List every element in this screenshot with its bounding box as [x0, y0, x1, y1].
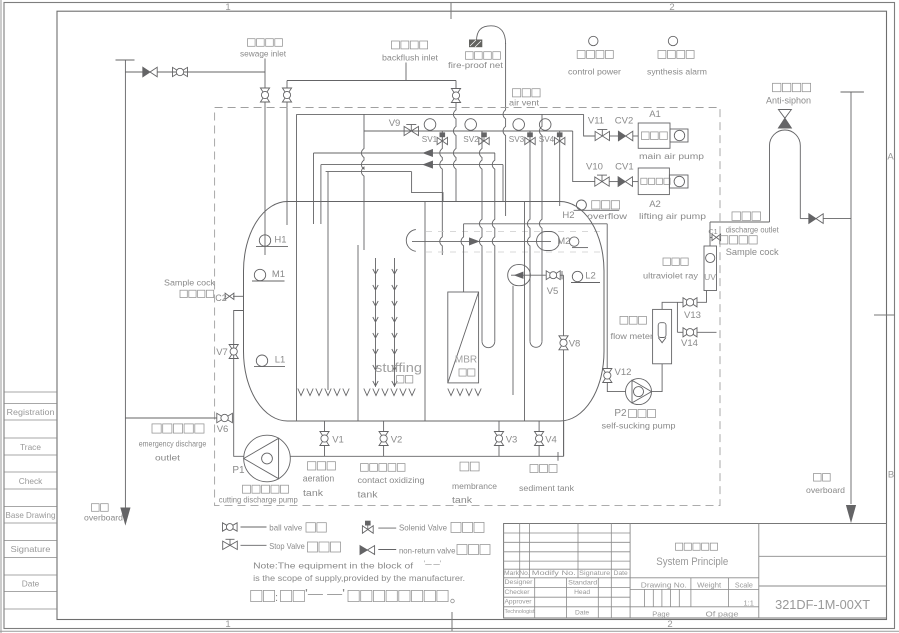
legend label ball valve cjk [306, 523, 326, 532]
valve C2 [225, 293, 234, 299]
valve V8 [559, 336, 568, 350]
label aeration tank cjk [308, 462, 336, 470]
svg-text:Page: Page [652, 610, 670, 619]
svg-text:'— —': '— —' [305, 589, 345, 601]
aeration diffusers row [298, 389, 349, 396]
wire check valve to overboard main [823, 218, 851, 220]
svg-text:L1: L1 [275, 355, 286, 366]
svg-text:main air pump: main air pump [639, 151, 704, 161]
wire header left leg [313, 153, 315, 224]
wire overboard-left vertical pipe [124, 60, 126, 508]
valve V7 [229, 345, 238, 359]
label overboard left cjk [92, 504, 109, 512]
anti-siphon vacuum breaker [778, 110, 791, 119]
wire main air bus y114 [297, 113, 584, 115]
svg-text:Head: Head [574, 589, 590, 596]
svg-text:Note:The equipment in the bloc: Note:The equipment in the block of [253, 560, 414, 570]
wire drain V4 [538, 421, 540, 431]
svg-text:V2: V2 [391, 435, 403, 446]
svg-text:V7: V7 [216, 347, 228, 358]
stuffing arrows column 1 [373, 258, 378, 387]
fire-proof net box [469, 40, 482, 48]
valve V6 [217, 413, 233, 422]
valve V13 [683, 298, 697, 307]
svg-text:V5: V5 [547, 286, 559, 297]
svg-text:non-return valve: non-return valve [399, 545, 456, 555]
MBR module box [448, 292, 479, 383]
tank divider 4 [524, 202, 526, 422]
svg-text:Trace: Trace [20, 442, 41, 452]
solenoid valve SV2 [479, 137, 489, 144]
wire CV2-A1 [633, 135, 638, 137]
wire header box top y171 [326, 171, 412, 173]
flow meter float [658, 323, 666, 338]
title block outer box [504, 524, 887, 619]
air vent gooseneck [477, 26, 506, 44]
wire CV1-A2 [633, 181, 639, 183]
svg-text:P2: P2 [614, 408, 627, 419]
valve backflush right [451, 89, 460, 103]
MBR module diagonal [448, 292, 479, 383]
V5 suction drop [512, 286, 514, 395]
zone tick bottom [451, 612, 453, 631]
svg-text:Standard: Standard [568, 580, 597, 587]
svg-text:C2: C2 [215, 293, 227, 303]
M1 underline [252, 280, 285, 282]
wire aeration feed drop [327, 172, 329, 390]
wire permeate down to V12 [606, 224, 608, 369]
legend stop valve symbol [223, 541, 238, 549]
valve V11 [595, 131, 609, 140]
L2 underline [571, 282, 600, 284]
svg-text:overboard: overboard [806, 485, 845, 495]
MBR permeate drop [461, 224, 464, 292]
label discharge outlet cjk [732, 212, 761, 221]
label sediment tank cjk [530, 465, 557, 473]
V5 suction oval [508, 265, 531, 286]
wire manifold right riser [563, 421, 565, 456]
overflow port H2 circle [576, 200, 586, 210]
port circle 3 on air bus [513, 119, 525, 131]
non-return valve overboard [809, 214, 816, 224]
svg-text:outlet: outlet [155, 453, 181, 463]
svg-text:Scale: Scale [735, 581, 753, 590]
valve V4 [535, 432, 544, 446]
svg-text:Modify No.: Modify No. [532, 570, 576, 577]
svg-text:V14: V14 [681, 338, 698, 349]
liquid level dashed line 1 [426, 230, 601, 232]
non-return valve top-left [143, 67, 150, 77]
svg-text:stuffing: stuffing [375, 361, 422, 375]
tank divider 1 [296, 114, 298, 421]
level sensor M1 circle [254, 269, 265, 280]
tank shell outline [244, 202, 605, 422]
wire SV1 drop [440, 131, 443, 255]
wire bus corner to V10 [573, 131, 595, 182]
membrane diffusers row [448, 389, 481, 396]
level sensor L1 circle [256, 355, 267, 366]
label contact oxidizing cjk [361, 464, 406, 472]
svg-text:2: 2 [667, 619, 672, 630]
wire emergency discharge line [125, 417, 216, 419]
wire header left leg 2 [320, 165, 322, 224]
svg-text:M1: M1 [272, 269, 285, 280]
svg-text:sewage inlet: sewage inlet [240, 49, 287, 59]
level sensor H1 circle [259, 235, 270, 246]
solenoid valve SV1 [437, 137, 447, 144]
label ultraviolet ray cjk [663, 258, 688, 265]
svg-text:Base Drawing: Base Drawing [6, 510, 56, 520]
sample cock C2 stub [233, 295, 244, 297]
svg-text:cutting discharge pump: cutting discharge pump [219, 494, 298, 504]
UV lamp circle [706, 253, 715, 262]
wire overboard-left header cap [116, 59, 135, 61]
label stuffing cjk [397, 376, 413, 383]
valve sewage inlet [260, 88, 269, 102]
UV unit box [704, 246, 717, 291]
wire backflush dist line 2 y164 [321, 164, 503, 166]
flow arrow on line 2 [424, 161, 433, 168]
svg-text:Date: Date [614, 570, 628, 577]
svg-text:1: 1 [225, 2, 230, 13]
wire branch to V14 [677, 331, 683, 333]
control power circle [589, 36, 598, 45]
lifting air pump A2 box [638, 168, 669, 195]
V5 suction arrow [511, 274, 546, 276]
level sensor M2 circle [570, 237, 579, 246]
wire backflush right drop [455, 81, 457, 89]
svg-text:tank: tank [303, 488, 324, 498]
liquid level dashed line 2 [426, 251, 601, 253]
svg-text:Of page: Of page [706, 610, 739, 619]
legend solenoid line [378, 527, 396, 529]
wire V5 to V8 riser [563, 275, 565, 335]
wire V10-CV1 [609, 181, 618, 183]
label emergency discharge cjk [152, 424, 204, 433]
svg-text:B: B [888, 470, 894, 481]
svg-text:SV1: SV1 [422, 135, 438, 144]
svg-text:SV4: SV4 [539, 135, 555, 144]
wire P2 to flow meter [652, 364, 663, 392]
check valve CV2 [618, 131, 625, 141]
svg-text:A2: A2 [649, 199, 661, 210]
svg-text:flow meter: flow meter [611, 331, 654, 341]
wire V13 to UV [697, 291, 707, 303]
legend label non-return cjk [457, 545, 490, 555]
svg-text:A: A [887, 152, 894, 163]
wire overboard-right vertical [850, 92, 852, 504]
wire tank tee to V7 [234, 311, 244, 457]
svg-text:overflow: overflow [587, 211, 628, 221]
label overboard right cjk [814, 474, 831, 482]
svg-text:System Principle: System Principle [656, 556, 728, 568]
legend non-return line [378, 549, 396, 551]
zone tick right [874, 314, 895, 316]
label flow meter cjk [620, 316, 646, 324]
M2 underline [572, 247, 588, 249]
solenoid valve SV3 [525, 137, 535, 144]
svg-text:V4: V4 [545, 435, 557, 446]
check valve CV1 [618, 177, 625, 187]
port circle 4 on air bus [539, 119, 551, 131]
svg-text:membrance: membrance [452, 481, 497, 491]
overboard-right arrow [847, 506, 856, 522]
wire drain V1 [324, 421, 326, 431]
svg-text:Approver: Approver [505, 599, 533, 606]
wire header right leg [412, 172, 443, 202]
wire air vent pipe [503, 43, 506, 216]
svg-text:Designer: Designer [505, 579, 534, 586]
wire bottom drain manifold [290, 455, 563, 457]
wire bus corner to V11 [584, 114, 595, 136]
synthesis alarm circle [668, 36, 677, 45]
revision table grid [4, 392, 57, 609]
svg-text:fire-proof net: fire-proof net [448, 60, 504, 70]
svg-text:Sample cock: Sample cock [164, 278, 216, 288]
svg-text:overboard: overboard [84, 513, 123, 523]
contact-ox diffusers row [364, 389, 415, 396]
port circle 1 on air bus [424, 119, 436, 131]
legend ball valve symbol [223, 523, 238, 531]
wire secondary air bus y131 [364, 130, 573, 132]
svg-text:aeration: aeration [303, 473, 335, 483]
valve V3 [494, 432, 503, 446]
svg-text:Check: Check [19, 476, 43, 486]
wire V14 drain [697, 331, 717, 333]
svg-text:UV: UV [704, 272, 716, 282]
title block main dividers [629, 524, 631, 619]
anti-siphon loop [770, 130, 801, 222]
valve V1 [320, 432, 329, 446]
label sample cock left cjk [180, 290, 214, 297]
legend non-return symbol [360, 546, 367, 555]
valve C1 [712, 234, 721, 240]
svg-text:No.: No. [519, 570, 530, 577]
svg-text:is the scope of supply,provide: is the scope of supply,provided by the m… [253, 573, 465, 583]
svg-text:contact oxidizing: contact oxidizing [358, 475, 425, 485]
level sensor L2 circle [572, 271, 582, 281]
svg-text:Checker: Checker [505, 589, 531, 596]
svg-text:H2: H2 [562, 210, 574, 221]
svg-text:CV2: CV2 [615, 116, 633, 127]
wire backflush dist line 1 y153 [314, 152, 496, 154]
title area grid [630, 578, 759, 607]
label membrance tank cjk [460, 462, 479, 471]
H2 underline [574, 209, 620, 211]
valve V12 [603, 369, 612, 383]
transfer pipe line [412, 240, 551, 242]
legend label stop valve cjk [308, 542, 341, 552]
pump P1 cutting discharge [244, 435, 291, 482]
wire SV4 drop to overflow [559, 131, 561, 206]
chinese note cjk part2 [348, 590, 448, 601]
svg-text:ultraviolet ray: ultraviolet ray [643, 271, 699, 281]
svg-text:Technologist: Technologist [505, 609, 535, 615]
svg-text:V3: V3 [506, 435, 518, 446]
wire sewage inlet drop [264, 59, 266, 89]
label control power cjk [577, 51, 613, 59]
svg-text:V1: V1 [332, 435, 344, 446]
svg-text:SV2: SV2 [463, 135, 479, 144]
svg-text:Solenid Valve: Solenid Valve [399, 523, 447, 533]
valve V10 [595, 177, 609, 186]
svg-text:Anti-siphon: Anti-siphon [766, 96, 811, 106]
pump P2 self-sucking [626, 379, 652, 405]
label backflush inlet cjk [392, 41, 428, 49]
wire contact-ox feed drop [361, 114, 364, 250]
wire drain V2 [383, 421, 385, 431]
port circle 2 on air bus [465, 119, 477, 131]
wire flow meter to V13 [662, 302, 683, 309]
svg-text:Date: Date [22, 579, 40, 589]
wire UV riser [709, 222, 711, 246]
valve V14 [683, 328, 697, 337]
svg-text:lifting air pump: lifting air pump [639, 211, 706, 221]
valve V2 [379, 432, 388, 446]
wire top-left branch y72 [125, 71, 265, 73]
svg-text:1:1: 1:1 [743, 599, 753, 608]
zone tick top [450, 3, 452, 20]
svg-text:self-sucking pump: self-sucking pump [602, 420, 676, 430]
label sewage inlet cjk [248, 39, 283, 47]
svg-text:Registration: Registration [7, 407, 55, 417]
svg-text:321DF-1M-00XT: 321DF-1M-00XT [775, 598, 870, 612]
legend label solenoid cjk [451, 522, 484, 532]
label fire-proof net cjk [466, 52, 501, 60]
svg-text:sediment tank: sediment tank [519, 483, 575, 493]
H1 underline [256, 245, 288, 247]
svg-text:A1: A1 [649, 109, 661, 120]
wire backflush stub [405, 63, 407, 81]
ball valve top-left [173, 67, 188, 76]
valve backflush left [282, 88, 291, 102]
manifold junction tick [557, 452, 559, 461]
svg-text::: : [275, 592, 278, 604]
svg-text:V10: V10 [586, 161, 603, 172]
svg-text:control power: control power [568, 67, 621, 77]
solenoid valve SV4 [555, 137, 565, 144]
membrane U-tube 1 [482, 341, 495, 347]
scope of supply dashed box [215, 108, 720, 506]
svg-text:Sample cock: Sample cock [726, 247, 779, 257]
wire V13-V14 branch [676, 302, 678, 332]
tank divider 3 [424, 202, 426, 422]
L1 underline [254, 366, 285, 368]
transfer pipe M2 capsule [537, 232, 560, 251]
svg-text:Date: Date [575, 610, 589, 617]
valve V9 [404, 126, 418, 135]
svg-text:Stop Valve: Stop Valve [269, 541, 305, 551]
svg-text:Drawing No.: Drawing No. [641, 581, 687, 590]
A2 attach box [669, 175, 688, 188]
legend solenoid symbol [362, 526, 373, 534]
transfer pipe C-bend [406, 230, 416, 252]
svg-text:MBR: MBR [455, 355, 477, 366]
svg-text:P1: P1 [232, 465, 245, 476]
svg-text:discharge outlet: discharge outlet [726, 226, 780, 235]
wire line2 right drop [502, 165, 504, 202]
svg-text:V9: V9 [389, 118, 401, 129]
svg-text:C1: C1 [708, 227, 717, 236]
svg-text:M2: M2 [557, 236, 570, 247]
label sample cock right cjk [720, 236, 758, 244]
legend ball valve line [241, 526, 267, 528]
wire drain V3 [498, 421, 500, 431]
label cutting discharge pump cjk [243, 485, 289, 493]
svg-text:ball valve: ball valve [269, 523, 302, 533]
wire UV to anti-siphon [710, 221, 770, 223]
svg-text:synthesis alarm: synthesis alarm [647, 67, 707, 77]
label air vent cjk [513, 89, 541, 97]
svg-text:H1: H1 [274, 235, 286, 246]
wire backflush left drop [286, 81, 288, 89]
svg-text:2: 2 [669, 2, 674, 13]
svg-text:'— —': '— —' [424, 559, 441, 569]
svg-text:V6: V6 [217, 424, 229, 435]
wire anti-siphon to check valve [800, 218, 809, 220]
wire V11-CV2 [610, 135, 619, 137]
overboard-right header cap [841, 91, 864, 93]
svg-text:Signature: Signature [579, 570, 610, 577]
flow meter body [653, 309, 672, 363]
svg-text:1: 1 [225, 619, 230, 630]
svg-text:L2: L2 [585, 271, 596, 282]
label MBR cjk [459, 369, 475, 376]
chinese note cjk part1 [251, 590, 275, 601]
svg-text:V12: V12 [615, 367, 632, 378]
svg-text:Mark: Mark [504, 570, 520, 577]
A1 attach box [670, 129, 688, 142]
main air pump A1 box [638, 123, 670, 148]
drawing number zone dividers [759, 555, 887, 557]
svg-text:CV1: CV1 [615, 161, 633, 172]
svg-text:V11: V11 [588, 116, 604, 127]
valve V5 [546, 271, 560, 280]
wire backflush manifold [287, 80, 456, 82]
sample cock C1 stub [710, 236, 712, 238]
legend stop valve line [241, 544, 267, 546]
flow arrow on line 1 [424, 150, 433, 157]
svg-text:backflush inlet: backflush inlet [382, 52, 439, 62]
svg-text:tank: tank [358, 490, 379, 500]
transfer flow arrow [470, 238, 479, 245]
overboard-left arrow [121, 508, 130, 524]
svg-text:V13: V13 [684, 310, 701, 321]
svg-text:Signature: Signature [11, 544, 51, 554]
svg-text:V8: V8 [569, 339, 581, 350]
svg-text:Weight: Weight [697, 581, 722, 590]
label overflow cjk [592, 201, 620, 209]
revision columns grid [504, 524, 759, 619]
stuffing arrows column 2 [392, 258, 397, 387]
svg-text:tank: tank [452, 495, 473, 505]
tank divider 2 [357, 245, 359, 421]
membrane U-tube 2 [530, 341, 542, 347]
svg-text:emergency discharge: emergency discharge [139, 439, 207, 449]
permeate header to outside [464, 223, 608, 225]
title area system principle cjk [676, 543, 718, 550]
svg-text:SV3: SV3 [509, 135, 525, 144]
label synthesis alarm cjk [658, 51, 694, 59]
wire V12 to P2 [607, 383, 625, 392]
svg-text:air vent: air vent [509, 98, 540, 107]
label anti-siphon cjk [773, 83, 811, 91]
